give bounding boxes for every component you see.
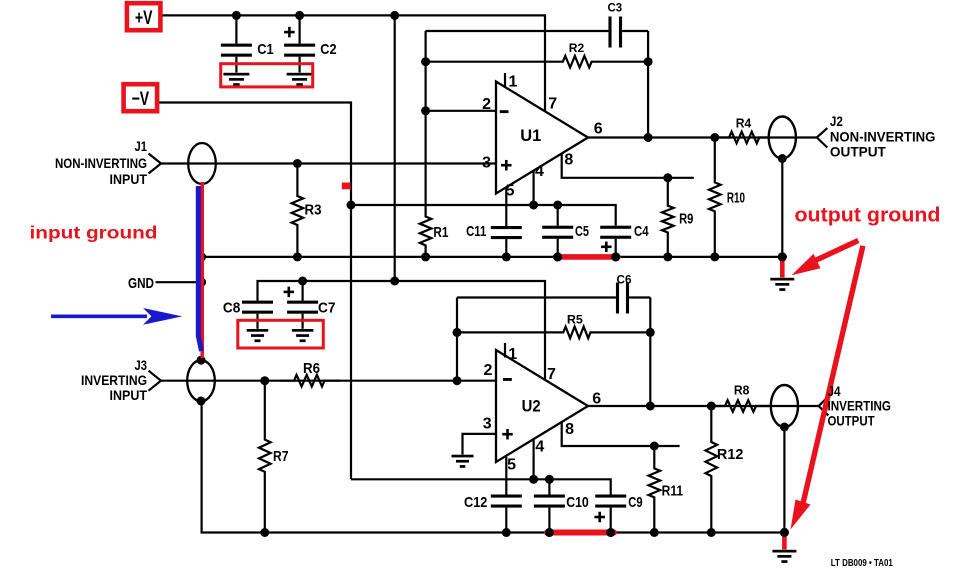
svg-text:R11: R11 [662,482,684,499]
svg-text:7: 7 [548,96,557,113]
svg-text:INPUT: INPUT [110,387,148,403]
svg-text:−V: −V [132,89,150,110]
svg-text:R1: R1 [433,224,448,241]
svg-text:6: 6 [594,121,603,138]
svg-text:R8: R8 [734,382,750,397]
svg-text:R7: R7 [273,448,289,465]
svg-text:6: 6 [592,390,601,407]
svg-text:GND: GND [128,275,154,292]
svg-text:INVERTING: INVERTING [81,372,147,388]
svg-text:J1: J1 [135,138,148,154]
svg-text:C11: C11 [466,223,486,240]
svg-text:8: 8 [564,151,573,168]
svg-text:C6: C6 [617,273,632,287]
svg-text:R10: R10 [727,189,745,206]
svg-text:5: 5 [506,182,515,199]
svg-text:7: 7 [547,366,556,383]
svg-text:1: 1 [509,74,518,91]
svg-text:OUTPUT: OUTPUT [830,144,886,160]
svg-text:output ground: output ground [795,205,941,227]
svg-text:C12: C12 [464,494,487,511]
svg-text:R9: R9 [679,211,693,228]
svg-text:J3: J3 [135,357,148,373]
svg-text:R4: R4 [736,115,752,130]
svg-text:R5: R5 [567,313,583,327]
svg-text:3: 3 [483,415,492,432]
svg-text:R6: R6 [303,360,320,377]
svg-text:C2: C2 [320,41,336,58]
svg-text:R12: R12 [717,446,744,463]
svg-text:INPUT: INPUT [110,171,148,187]
svg-text:C4: C4 [634,223,649,240]
svg-text:C5: C5 [575,223,589,240]
svg-text:8: 8 [565,421,574,438]
svg-text:input ground: input ground [30,223,158,243]
svg-text:1: 1 [508,346,517,363]
svg-text:+V: +V [135,8,153,29]
svg-text:NON-INVERTING: NON-INVERTING [830,129,936,145]
svg-text:5: 5 [507,456,516,473]
svg-text:C3: C3 [608,1,623,15]
svg-text:U2: U2 [522,396,541,415]
svg-text:C10: C10 [566,494,589,511]
svg-text:4: 4 [535,163,544,180]
svg-text:C7: C7 [318,300,336,317]
svg-text:U1: U1 [520,126,541,145]
svg-text:OUTPUT: OUTPUT [828,413,875,429]
svg-text:J2: J2 [830,113,843,129]
svg-text:LT DB009 • TA01: LT DB009 • TA01 [831,558,893,569]
svg-text:R3: R3 [305,201,322,218]
svg-text:2: 2 [484,362,493,379]
svg-text:2: 2 [482,96,491,113]
svg-text:C8: C8 [223,300,241,317]
svg-text:4: 4 [535,438,544,455]
svg-text:C9: C9 [628,494,642,511]
svg-text:3: 3 [482,154,491,171]
svg-text:R2: R2 [569,41,585,55]
svg-text:C1: C1 [257,41,273,58]
svg-text:INVERTING: INVERTING [828,398,892,414]
svg-text:NON-INVERTING: NON-INVERTING [55,155,147,171]
